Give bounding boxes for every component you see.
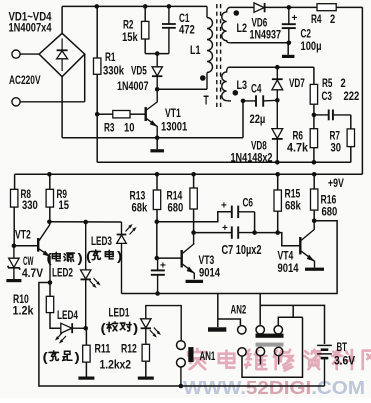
capacitor C4 — [243, 95, 277, 106]
svg-text:C4: C4 — [251, 82, 262, 96]
node VD7 top — [275, 65, 280, 70]
wire bridge right vertex to AC2 — [84, 54, 86, 102]
svg-text:1N4007: 1N4007 — [117, 79, 149, 93]
svg-text:15: 15 — [59, 198, 70, 212]
wire +9V rail — [15, 173, 363, 175]
svg-text:L2: L2 — [237, 21, 248, 35]
diode VD7 — [272, 67, 283, 100]
resistor R6 — [310, 115, 317, 162]
wire right border vertical — [361, 7, 363, 174]
polarity dot L2 — [234, 10, 240, 16]
svg-text:9014: 9014 — [199, 266, 220, 280]
wire VT3 base link — [157, 257, 182, 259]
svg-text:68k: 68k — [285, 199, 301, 213]
svg-text:LED2: LED2 — [52, 266, 73, 280]
resistor R10 — [46, 283, 53, 313]
node R6 bottom — [312, 160, 317, 165]
label (dianyuan) power — [52, 252, 74, 261]
wire bridge top vertex to +rail — [61, 6, 63, 33]
svg-text:AN1: AN1 — [200, 349, 216, 363]
LED4 — [56, 323, 85, 342]
resistor R11 — [83, 328, 90, 376]
wire R4 to right border — [336, 6, 362, 8]
wire to VT4 base — [278, 233, 300, 246]
resistor R7 — [347, 115, 354, 162]
wire L2 bottom to C2 node — [231, 42, 289, 44]
wire R2 C1 bottom link — [145, 53, 169, 55]
node R16 bottom / VT4 collector — [312, 218, 317, 223]
ground R11 — [78, 377, 94, 380]
svg-text:+: + — [160, 261, 166, 272]
svg-text:VT1: VT1 — [165, 106, 181, 120]
capacitor C3 — [314, 110, 351, 121]
node R13 bottom — [155, 219, 160, 224]
wire R10 to LED4 — [50, 313, 61, 329]
node R16 top — [312, 172, 317, 177]
svg-text:AC220V: AC220V — [9, 75, 41, 87]
svg-text:2: 2 — [330, 12, 335, 26]
battery BT — [317, 345, 332, 386]
switch lower contact B — [256, 347, 264, 355]
resistor R14 — [190, 174, 197, 232]
node VD5 top — [155, 51, 160, 56]
svg-text:C6: C6 — [243, 196, 254, 210]
node R13 top — [155, 172, 160, 177]
node VT1 collector — [155, 87, 160, 92]
wire VT2 base — [14, 245, 37, 247]
svg-text:1.2kx2: 1.2kx2 — [100, 358, 132, 372]
diode VD6 — [254, 3, 265, 12]
svg-text:330k: 330k — [103, 64, 124, 78]
svg-text:100µ: 100µ — [301, 39, 322, 53]
svg-text:R11: R11 — [95, 342, 111, 356]
resistor R15 — [274, 174, 281, 232]
svg-text:VD7: VD7 — [289, 76, 305, 90]
ground VT1 emitter — [150, 138, 164, 153]
wire VT1 emitter rail — [62, 137, 243, 139]
svg-text:R5: R5 — [322, 76, 333, 90]
wire R1 node down to feedback rail — [96, 114, 98, 162]
svg-text:LED3: LED3 — [91, 234, 112, 248]
wire AN2 contact 1 elbow — [218, 319, 241, 325]
node LED2 top — [83, 220, 88, 225]
node R1 bottom junction — [95, 112, 100, 117]
svg-text:): ) — [133, 322, 138, 336]
pushbutton AN1 — [177, 341, 194, 386]
resistor R13 — [153, 174, 160, 221]
ground VT3 — [186, 280, 204, 283]
svg-text:): ) — [117, 250, 122, 264]
transistor VT4 — [300, 221, 315, 268]
resistor R5 — [310, 67, 317, 115]
svg-text:C3: C3 — [322, 89, 333, 103]
svg-text:30: 30 — [331, 141, 342, 155]
svg-text:VD5: VD5 — [131, 64, 147, 78]
wire +9V rail corner into R8 — [14, 174, 16, 189]
node VT3 base — [155, 256, 160, 261]
svg-text:AN2: AN2 — [231, 303, 247, 317]
bridge rectifier VD1~VD4 — [39, 33, 85, 76]
svg-text:68k: 68k — [132, 201, 148, 215]
switch bridge bar contacts 2-3 — [256, 334, 284, 338]
svg-text:680: 680 — [168, 201, 184, 215]
transistor VT3 — [182, 233, 195, 280]
wire VT2 emitter branch to bottom rail — [39, 283, 325, 387]
svg-text:LED4: LED4 — [57, 308, 78, 322]
node top rail R1 — [95, 4, 100, 9]
LED2 — [81, 222, 100, 328]
svg-text:2: 2 — [341, 76, 346, 90]
svg-text:+: + — [221, 201, 227, 212]
svg-text:R12: R12 — [121, 342, 137, 356]
capacitor C6 — [221, 201, 255, 219]
ground CW — [6, 279, 21, 282]
node C2 bottom — [287, 41, 292, 46]
svg-text:4.7k: 4.7k — [287, 141, 308, 155]
svg-text:LED1: LED1 — [109, 306, 130, 320]
zener diode CW — [8, 246, 20, 279]
node VD8 bottom — [275, 160, 280, 165]
label (chongdian) charging — [91, 250, 113, 260]
svg-text:10: 10 — [124, 121, 135, 135]
svg-text:1N4007x4: 1N4007x4 — [9, 23, 52, 35]
svg-text:L1: L1 — [190, 43, 201, 57]
ground VT4 — [305, 268, 324, 271]
svg-text:+: + — [292, 13, 298, 24]
AC terminal 2 — [12, 98, 85, 106]
node R15 top — [275, 172, 280, 177]
wire output rail to AN2 plunger — [217, 294, 219, 328]
wire stub below contact B — [259, 356, 261, 365]
svg-text:13001: 13001 — [161, 120, 187, 134]
wire battery feed — [260, 305, 324, 344]
svg-text:VT2: VT2 — [15, 228, 31, 242]
svg-text:9014: 9014 — [278, 261, 299, 275]
node VT2 base / R8 CW junction — [12, 244, 17, 249]
transformer winding L2 — [222, 7, 231, 42]
resistor R1 — [94, 6, 101, 114]
LED1 — [141, 306, 182, 345]
wire VT3 collector to C7 — [194, 232, 232, 234]
svg-text:R4: R4 — [311, 12, 322, 26]
transistor VT1 — [146, 89, 158, 138]
node C4 right — [275, 98, 280, 103]
diode VD8 — [272, 100, 283, 162]
wire C6 right to join node — [254, 212, 256, 233]
transformer winding L1 — [207, 6, 213, 89]
wire L3 top rail to R5 — [229, 66, 314, 68]
svg-text:WWW.52DIGI.COM: WWW.52DIGI.COM — [183, 378, 365, 398]
capacitor C2 — [282, 7, 298, 42]
svg-text:330: 330 — [22, 198, 38, 212]
node C3 left / R5 R6 junction — [312, 113, 317, 118]
capacitor C5 unlabeled — [151, 258, 166, 293]
resistor R2 — [142, 6, 149, 53]
node C5 bottom on output rail — [155, 291, 160, 296]
diode VD5 — [152, 54, 162, 90]
node R14 bottom / VT3 collector — [191, 230, 196, 235]
svg-text:472: 472 — [179, 23, 195, 37]
node R15 bottom — [275, 230, 280, 235]
AC terminal 1 — [12, 50, 39, 58]
resistor R9 — [46, 174, 53, 222]
watermark row1 — [188, 349, 371, 370]
wire C4 node down to emitter rail — [242, 101, 244, 138]
node LED2 LED4 R11 junction — [83, 326, 88, 331]
svg-text:): ) — [75, 351, 80, 365]
node C6 C7 join — [252, 230, 257, 235]
wire VT4 output rail — [122, 221, 338, 294]
wire bridge bottom vertex to ground rail — [61, 77, 63, 138]
svg-text:22µ: 22µ — [250, 112, 266, 126]
svg-text:+9V: +9V — [328, 176, 344, 190]
wire contact 3 elbow — [278, 317, 302, 325]
label (chongzu) full — [49, 351, 72, 361]
node VT1 emitter — [155, 136, 160, 141]
transistor VT2 — [38, 222, 50, 283]
node VT2 emitter branch — [48, 280, 53, 285]
svg-text:T: T — [204, 94, 209, 108]
node top rail C1 — [167, 4, 172, 9]
wire top +rail left segment — [62, 5, 207, 7]
resistor R3 — [97, 111, 145, 118]
resistor R8 — [11, 189, 18, 246]
polarity dot L1 — [200, 75, 206, 81]
wire join to R15 bottom — [255, 232, 278, 234]
wire R13 node to C6 — [157, 212, 232, 222]
wire L2 to VD6 — [229, 6, 254, 8]
node top rail R2 — [143, 4, 148, 9]
svg-text:R1: R1 — [105, 50, 116, 64]
wire T branch battery line — [292, 305, 294, 317]
svg-text:1.2k: 1.2k — [13, 304, 34, 318]
switch contact circle 3 — [274, 326, 282, 334]
node VT2 collector / R9 bottom — [47, 220, 52, 225]
wire VT2 collector rail — [49, 221, 121, 223]
AN2 contact circle 1 — [238, 326, 246, 334]
resistor R16 — [311, 174, 318, 220]
svg-text:1N4937: 1N4937 — [250, 28, 282, 42]
resistor R4 — [317, 4, 336, 11]
node C2 top — [287, 5, 292, 10]
svg-text:680: 680 — [322, 205, 338, 219]
transformer winding L3 — [0, 67, 231, 101]
svg-text:+: + — [222, 223, 228, 234]
svg-text:4.7V: 4.7V — [22, 266, 43, 280]
ground R12 — [138, 377, 154, 380]
polarity dot L3 — [233, 90, 239, 96]
switch lower contact A — [238, 348, 246, 356]
node L3 bottom / C4 left — [241, 99, 246, 104]
node R9 top — [47, 172, 52, 177]
svg-text:R3: R3 — [104, 121, 115, 135]
svg-text:222: 222 — [344, 89, 360, 103]
label (xiaodui) calibrate — [107, 322, 131, 332]
wire R13 node down to VT3 base — [156, 222, 158, 258]
pushbutton AN2 plunger bar — [208, 327, 226, 331]
svg-text:15k: 15k — [122, 30, 138, 44]
svg-text:): ) — [78, 252, 83, 266]
ground C2 — [282, 43, 295, 58]
wire feedback rail — [97, 161, 351, 163]
switch lower bridge bar gray — [256, 343, 284, 347]
svg-text:3.6V: 3.6V — [334, 354, 355, 368]
svg-text:BT: BT — [337, 340, 348, 354]
node AN1 bottom rail — [179, 384, 184, 389]
capacitor C1 — [162, 6, 176, 53]
resistor R12 — [142, 344, 149, 376]
LED3 — [117, 222, 136, 294]
switch contact circle 2 — [256, 326, 264, 334]
transformer core — [217, 4, 221, 108]
node R14 top — [191, 172, 196, 177]
wire stub below contact C — [278, 356, 280, 365]
wire collector to L1 bottom — [157, 88, 207, 90]
switch lower contact C — [274, 347, 282, 355]
svg-text:C7 10µx2: C7 10µx2 — [222, 242, 262, 257]
svg-text:L3: L3 — [237, 78, 248, 92]
wire output rail to contact 2 — [259, 294, 261, 325]
wire VD6 to R4 — [265, 6, 317, 8]
wire contact A to contact 3 loop — [242, 317, 303, 377]
capacitor C7 — [222, 223, 255, 239]
